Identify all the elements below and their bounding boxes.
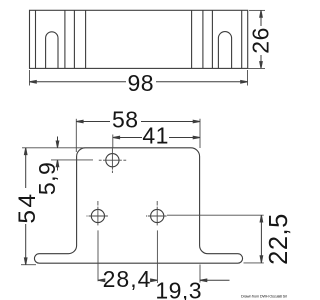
- svg-text:58: 58: [112, 107, 139, 133]
- svg-text:54: 54: [14, 191, 41, 223]
- svg-text:5,9: 5,9: [34, 162, 60, 195]
- svg-text:19,3: 19,3: [155, 278, 202, 300]
- svg-text:98: 98: [128, 70, 155, 96]
- svg-text:22,5: 22,5: [265, 213, 293, 265]
- svg-text:28,4: 28,4: [103, 266, 152, 292]
- svg-text:41: 41: [142, 123, 169, 149]
- svg-text:26: 26: [248, 27, 274, 54]
- svg-text:Drawn from DWH Osculati Srl: Drawn from DWH Osculati Srl: [241, 295, 287, 299]
